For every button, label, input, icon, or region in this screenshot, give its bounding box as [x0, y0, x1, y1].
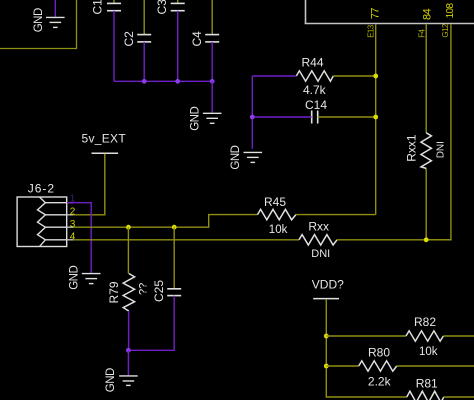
wire C25 bottom (purple) [128, 296, 174, 351]
wire R80 left [326, 365, 358, 367]
svg-text:R82: R82 [414, 315, 436, 329]
pin 1 number [70, 193, 76, 204]
svg-text:R79: R79 [107, 281, 121, 303]
capacitor C14 [305, 98, 327, 124]
resistor R45 [258, 195, 296, 236]
resistor Rxx (DNI) [299, 220, 337, 260]
wire C3 to bus [177, 11, 179, 82]
wire (purple ground bus under C1-C4) [114, 80, 212, 82]
junction R80 tap [324, 364, 329, 369]
svg-text:R44: R44 [302, 56, 324, 70]
pin 4 number [70, 231, 76, 242]
ground GND (pin 1) [68, 266, 100, 290]
wire VDD vertical [326, 299, 407, 397]
ground GND (top-left) [33, 8, 65, 32]
power label VDD? [312, 278, 344, 299]
wire C1 to bus [113, 11, 115, 82]
pin 77 number [370, 8, 382, 20]
svg-text:DNI: DNI [436, 141, 447, 158]
junction R44/pin77 [373, 74, 378, 79]
wire R82 right [443, 335, 474, 337]
wire R82 left [326, 335, 406, 337]
connector J6-2 [17, 182, 73, 247]
svg-text:GND: GND [230, 145, 242, 169]
power label 5v_EXT [82, 131, 127, 153]
resistor Rxx1 (vertical, DNI) [405, 133, 447, 169]
svg-text:10k: 10k [269, 224, 288, 236]
wire pin 3 net [73, 215, 258, 228]
svg-text:R45: R45 [264, 195, 286, 209]
wire C14 right [318, 116, 376, 118]
wire 5v_EXT down to pin 2 [73, 154, 105, 215]
ground GND (below R44/C14) [230, 145, 262, 169]
svg-text:10k: 10k [419, 346, 438, 358]
svg-text:J6-2: J6-2 [28, 182, 55, 196]
svg-text:C14: C14 [305, 98, 327, 112]
wire pin 84 vertical lower [425, 168, 427, 239]
wire R80 right [397, 365, 474, 367]
pin G12 name [441, 23, 450, 37]
capacitor C25 [152, 280, 181, 302]
wire R44 right [333, 75, 375, 77]
pin E13 name [367, 24, 376, 38]
wire C4 to bus [211, 42, 213, 81]
capacitor C1 [91, 0, 122, 15]
svg-text:3: 3 [70, 219, 76, 230]
resistor R82 [406, 315, 443, 358]
svg-text:108: 108 [445, 2, 456, 18]
pin F4 name [417, 29, 426, 38]
wire C14 left (purple) [252, 116, 311, 118]
junction R79/C25 ground [126, 348, 131, 353]
resistor R44 [296, 56, 333, 98]
svg-text:C4: C4 [190, 31, 204, 47]
ground GND (below C4 bus) [190, 107, 222, 131]
svg-text:2.2k: 2.2k [368, 375, 392, 389]
wire pin 77 vertical [375, 24, 377, 214]
svg-text:F4: F4 [417, 29, 426, 38]
junction C25 tap [172, 225, 177, 230]
svg-text:4: 4 [70, 231, 76, 242]
svg-text:Rxx: Rxx [308, 220, 329, 234]
svg-text:G12: G12 [441, 23, 450, 37]
svg-text:GND: GND [190, 107, 202, 131]
resistor R80 [359, 346, 397, 389]
svg-text:VDD?: VDD? [312, 278, 344, 292]
junction pin84 net [424, 237, 429, 242]
svg-text:E13: E13 [367, 24, 376, 38]
wire pin 108 vertical + corner [426, 24, 451, 239]
wire C25 tap down [173, 227, 175, 289]
svg-text:DNI: DNI [311, 248, 330, 260]
wire R79 tap down [127, 227, 129, 273]
wire pin1 to ground (purple) [67, 203, 91, 273]
svg-text:R81: R81 [416, 377, 438, 391]
svg-text:R80: R80 [368, 346, 390, 360]
svg-text:C25: C25 [152, 280, 166, 302]
svg-text:84: 84 [422, 8, 434, 20]
wire (purple stub into GND top-left) [54, 0, 56, 17]
junction R82 tap [324, 334, 329, 339]
svg-text:5v_EXT: 5v_EXT [82, 131, 127, 145]
resistor R81 [407, 377, 444, 400]
resistor R79 (vertical) [107, 274, 149, 312]
svg-text:77: 77 [370, 8, 382, 20]
IC U? body edge (top-right) [305, 0, 474, 24]
sheet outline (top-left yellow box) [0, 0, 77, 49]
wire pin 4 net right [337, 239, 451, 241]
wire to ground (purple) [127, 350, 129, 375]
junction C2/bus [142, 79, 147, 84]
svg-text:??: ?? [137, 283, 149, 295]
svg-text:Rxx1: Rxx1 [405, 134, 419, 162]
wire pin 4 net left [73, 239, 299, 241]
svg-text:2: 2 [70, 206, 76, 217]
svg-text:C1: C1 [91, 0, 105, 15]
ground GND (below R79) [105, 368, 138, 392]
junction C14/pin77 [373, 115, 378, 120]
capacitor C2 [122, 0, 151, 47]
wire C2 to bus [143, 42, 145, 81]
pin 3 number [70, 219, 76, 230]
svg-text:GND: GND [68, 266, 80, 290]
wire R79 bottom (purple) [128, 311, 130, 350]
svg-text:4.7k: 4.7k [303, 83, 327, 97]
wire R44 left (purple) [252, 75, 296, 77]
capacitor C3 [155, 0, 185, 15]
pin 108 number [445, 2, 456, 18]
capacitor C4 [190, 0, 219, 47]
junction C3/bus [175, 79, 180, 84]
svg-text:C3: C3 [155, 0, 169, 15]
junction C14 branch [250, 115, 255, 120]
svg-text:GND: GND [33, 8, 45, 32]
pin 84 number [422, 8, 434, 20]
wire pin 84 vertical upper [425, 24, 427, 132]
pin 2 number [70, 206, 76, 217]
junction R79 tap [126, 225, 131, 230]
wire purple vertical R44/C14 to ground [251, 76, 253, 149]
svg-text:GND: GND [105, 368, 117, 392]
junction C4/bus [210, 79, 215, 84]
wire R45 right to pin77 net [296, 214, 376, 216]
svg-text:C2: C2 [122, 31, 136, 47]
wire bus down to ground [211, 81, 213, 112]
wire R81 right [444, 396, 474, 398]
